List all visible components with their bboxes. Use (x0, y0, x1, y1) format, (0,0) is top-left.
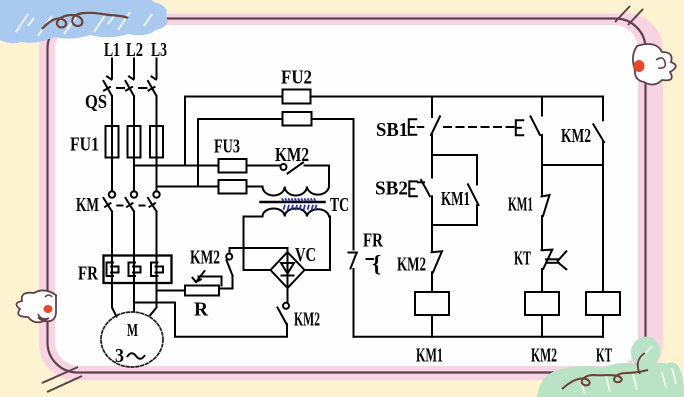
wire phase 1 to FR (111, 212, 113, 283)
wire FU2 to FR branch (312, 119, 354, 250)
wire FR to bottom rail (353, 269, 355, 337)
svg-text:KM1: KM1 (416, 345, 443, 367)
resistor R (185, 286, 219, 296)
wire FR to motor lead 2 (133, 283, 135, 312)
wire KM1 coil to rail (431, 315, 433, 337)
svg-text:KM2: KM2 (397, 254, 426, 276)
wire KT contact to KM2 coil (541, 269, 543, 292)
svg-text:FU3: FU3 (214, 136, 240, 158)
wire KM1 contact to KT contact (541, 216, 543, 249)
svg-text:KM: KM (76, 194, 99, 216)
svg-text:KM1: KM1 (508, 194, 533, 216)
svg-text:KM2: KM2 (561, 125, 591, 147)
rectifier VC bridge (271, 252, 305, 288)
button SB1 pole 2 (516, 116, 540, 135)
svg-text:L2: L2 (126, 39, 143, 61)
fuse FU1 phase 2 (128, 126, 141, 158)
wire L3 rail riser (197, 119, 199, 187)
contact KM2 braking upper (226, 254, 232, 276)
svg-text:KM2: KM2 (275, 144, 309, 166)
wire L2 rail riser (184, 97, 186, 166)
contact KM2 transformer primary (281, 163, 304, 174)
wire branch 2 from rail (541, 97, 543, 196)
wire SB2 to KM2 contact (431, 225, 433, 250)
wire control rail lower left (198, 118, 283, 120)
wire phase 1 (111, 96, 113, 191)
svg-text:L1: L1 (104, 39, 120, 61)
wire KT coil to rail (602, 315, 604, 337)
wire KM2 contact to primary right (305, 166, 330, 187)
fuse FU2 upper (283, 90, 311, 104)
wire KM2 NC to KT coil (602, 142, 604, 292)
button SB1 pole 1 (409, 116, 440, 135)
wire FR to motor lead 1 (112, 283, 117, 317)
contactor KM main contact 3 (148, 191, 160, 211)
wire secondary left to bridge (244, 217, 271, 271)
svg-text:3: 3 (115, 345, 124, 367)
button SB2 (409, 155, 432, 225)
wire control rail top (311, 96, 604, 98)
label tilde (127, 353, 145, 359)
contactor KM main contact 2 (126, 191, 138, 211)
thermal relay FR element 2 (129, 263, 141, 277)
switch QS pole 2 (126, 77, 135, 97)
fuse FU1 phase 1 (106, 126, 119, 158)
node L2 (133, 59, 135, 79)
contactor KM main contact 1 (104, 191, 116, 211)
svg-text:KT: KT (514, 248, 531, 270)
svg-text:FU2: FU2 (281, 67, 312, 89)
coil KM2 (525, 292, 559, 315)
contact KM1 self-latch loop (432, 155, 479, 225)
fuse FU3 lower (219, 180, 247, 194)
switch QS pole 1 (104, 77, 113, 97)
svg-text:TC: TC (330, 194, 349, 216)
wire control rail upper left (185, 96, 283, 98)
svg-text:VC: VC (295, 244, 316, 266)
wire phase 2 (133, 96, 135, 191)
wire L3 tap to FU3 lower (157, 186, 219, 188)
wire rectifier DC+ (230, 248, 288, 254)
thermal relay FR element 3 (151, 263, 163, 277)
svg-text:KT: KT (596, 345, 612, 367)
transformer TC secondary winding (244, 209, 331, 217)
svg-text:SB1: SB1 (376, 119, 408, 141)
wire phase 3 to FR (156, 212, 158, 283)
switch QS pole 3 (148, 77, 157, 97)
node L3 (156, 59, 158, 79)
transformer TC core hatching (282, 198, 317, 210)
thermal relay FR element 1 (107, 263, 119, 277)
svg-text:KM1: KM1 (441, 188, 470, 210)
transformer TC primary winding (263, 187, 330, 196)
button SB1 linkage dashes (444, 126, 514, 128)
svg-text:L3: L3 (151, 39, 167, 61)
wire control bottom rail (354, 336, 604, 338)
wire phase 2 to FR (133, 212, 135, 283)
wire to KM1 coil (431, 272, 433, 292)
svg-text:R: R (194, 299, 209, 321)
svg-text:SB2: SB2 (375, 178, 408, 200)
switch QS linkage (117, 87, 147, 89)
svg-text:KM2: KM2 (190, 247, 220, 269)
fuse FU2 lower (283, 112, 312, 126)
wire KM2 lower to phase 2 (134, 303, 287, 337)
svg-text:M: M (127, 320, 138, 340)
contact KM2 NC right (593, 124, 604, 142)
svg-text:KM2: KM2 (531, 345, 557, 367)
contactor KM linkage (117, 205, 144, 207)
svg-text:FU1: FU1 (70, 134, 99, 156)
svg-text:FR: FR (78, 263, 98, 285)
wire FU3 lower to primary left (247, 186, 263, 188)
contact KM2 interlock NC (432, 251, 443, 272)
thermal contact FR control (349, 253, 374, 269)
wire R to phase 3 (157, 290, 186, 292)
fuse FU3 upper (219, 159, 247, 173)
wire cross link (542, 164, 603, 166)
svg-text:QS: QS (85, 91, 107, 113)
wire FR to motor lead 3 (150, 283, 157, 316)
fuse FU1 phase 3 (150, 126, 163, 158)
resistor R tap arrow (193, 271, 205, 282)
wire phase 3 (156, 96, 158, 191)
wire rectifier DC- (287, 288, 289, 302)
coil KT (586, 292, 620, 315)
coil KM1 (415, 292, 449, 315)
motor M 3~ (101, 312, 163, 367)
svg-text:{: { (372, 251, 381, 276)
svg-text:KM2: KM2 (294, 309, 320, 331)
wire L2 tap to FU3 upper (134, 165, 219, 167)
thermal relay FR heater box (104, 256, 172, 284)
transformer TC core (261, 201, 325, 203)
wire branch 3 from rail (602, 97, 604, 121)
contact KM1 NO brake branch (542, 195, 550, 216)
wire secondary right to bridge (305, 217, 331, 271)
svg-text:FR: FR (363, 230, 383, 252)
wire branch 1 from rail (431, 97, 433, 118)
node L1 (111, 59, 113, 79)
wire KM2 coil to rail (541, 315, 543, 337)
contact KM2 braking lower (278, 303, 290, 324)
wire SB1 to latch junction (431, 135, 433, 155)
wire KM2 to resistor R (199, 276, 233, 289)
contact KT delay NC (542, 250, 567, 270)
wire FU3 upper to KM2 contact (247, 165, 281, 167)
